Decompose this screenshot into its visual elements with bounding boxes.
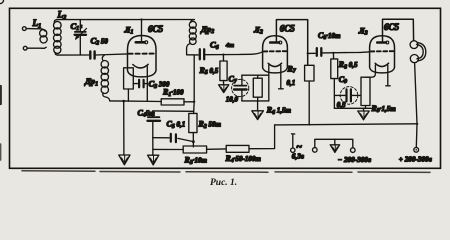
svg-text:R6 1,5т: R6 1,5т [266, 106, 292, 116]
ground 2 [148, 155, 159, 165]
ground lead 1 [123, 101, 125, 155]
V3 anode [377, 41, 386, 44]
svg-text:R9·1,5т: R9·1,5т [371, 104, 397, 114]
V2 cathode lead to bias loop [268, 65, 270, 101]
junction dot R1/bus [193, 101, 195, 103]
junction top rail / anode [140, 18, 142, 20]
C7 plates [234, 75, 247, 101]
svg-text:− 200-300в: − 200-300в [338, 156, 372, 164]
junction dot R2/C5 [192, 140, 195, 143]
svg-text:6С5: 6С5 [148, 24, 164, 34]
junction anode node / C8 [307, 52, 309, 54]
V2 bias loop top wire [242, 74, 269, 76]
V1 anode [136, 41, 145, 44]
capacitor C6 [200, 49, 240, 59]
V3 grid (dashed) [371, 50, 394, 52]
C9 plates [334, 89, 361, 101]
svg-text:~: ~ [296, 142, 302, 153]
svg-text:C5 0,1: C5 0,1 [167, 120, 186, 130]
svg-text:R1·100: R1·100 [162, 88, 184, 98]
V2 cathode arc [268, 63, 281, 66]
headphones: terminal circles and arc [410, 41, 426, 63]
variable capacitor C1 [75, 20, 87, 56]
V2 bias loop bottom wire [242, 100, 269, 102]
resistor R3 10t [183, 146, 206, 153]
cathode resistor R9 [361, 77, 370, 108]
scan edge marks [0, 86, 2, 104]
svg-text:C2 50: C2 50 [91, 35, 109, 46]
svg-text:C45т: C45т [138, 108, 156, 118]
R2 bottom lead [192, 133, 194, 147]
svg-text:Рис. 1.: Рис. 1. [210, 178, 237, 188]
junction phones/rail [416, 123, 418, 125]
capacitor C4 5t [148, 111, 161, 138]
svg-text:6С5: 6С5 [280, 24, 296, 34]
ground 1 [119, 155, 130, 165]
cathode resistor R6 [253, 75, 262, 101]
plate resistor R7 0,1 [305, 65, 314, 81]
tube V2 envelope [263, 36, 288, 73]
C4 top wire to R2 top [153, 110, 194, 112]
ground (negative supply) [330, 145, 339, 153]
V1 grid (dashed) [129, 53, 155, 55]
V3 cathode arc [375, 63, 388, 66]
svg-text:4т: 4т [225, 42, 234, 49]
capacitor C2 50 [90, 51, 128, 58]
wire C6 to V2 grid [240, 52, 263, 55]
svg-text:6С5: 6С5 [384, 22, 400, 32]
cathode node wire (Dr1 bottom to R1) [110, 100, 161, 103]
tank coil L2 [54, 20, 62, 56]
svg-text:R4·50-100т: R4·50-100т [225, 154, 262, 164]
svg-text:10,0: 10,0 [226, 95, 239, 103]
capacitor C8 10t [308, 48, 345, 56]
RF choke Dr1 [101, 55, 110, 101]
resistor R1 100 [161, 99, 184, 105]
capacitor C3 300 [133, 80, 147, 87]
V1 cathode arc [133, 64, 148, 68]
svg-text:R2 50т: R2 50т [198, 120, 222, 130]
ground (R5) [219, 85, 229, 93]
wire C8 to V3 grid [345, 51, 370, 54]
resistor R4 50-100t [226, 145, 249, 152]
junction grid wire / R5 [222, 54, 224, 56]
svg-text:R5 0,5: R5 0,5 [199, 66, 219, 76]
V1 cathode lead down [146, 66, 148, 101]
tube V1 envelope [128, 36, 157, 77]
svg-text:C8·10т: C8·10т [318, 31, 341, 41]
vertical bus x194 (Dr2/C6 node down to R2) [193, 55, 196, 113]
V3 heater stub with tick [386, 65, 390, 86]
RF choke Dr2 [187, 20, 197, 55]
svg-text:0,1: 0,1 [287, 79, 296, 87]
filament terminal ~6,3v [291, 134, 295, 153]
top rail wire [57, 19, 195, 21]
wire R4 to B+ riser [249, 125, 275, 149]
wire R3 to R4 [207, 148, 227, 150]
phones lead down to rail and + terminal [415, 63, 417, 148]
ground stub (V2) [257, 101, 259, 111]
svg-text:+ 200-300в: + 200-300в [399, 155, 433, 163]
V3 cathode lead to R9 [366, 65, 376, 77]
paper background [0, 0, 450, 190]
grid-leak R5 0,5 [220, 55, 227, 85]
svg-text:R8 0,5: R8 0,5 [338, 60, 358, 70]
ground (V3) [358, 111, 369, 120]
electrolytic C7 dashed shell [232, 79, 249, 96]
V3 bias bottom wire [334, 107, 371, 109]
junction dot [122, 100, 125, 103]
tank bottom wire [58, 54, 89, 56]
V2 heater stub with tick [279, 65, 284, 89]
V3 anode lead routed to phones [383, 19, 414, 41]
grid-leak resistor box (V1) [124, 68, 134, 89]
tube V3 envelope [370, 36, 395, 73]
ground lead 2 [152, 138, 154, 155]
capacitor C5 0,1 [153, 134, 194, 142]
V2 anode [270, 41, 279, 44]
terminal +200-300v [414, 147, 419, 152]
svg-text:R3·10т: R3·10т [184, 156, 208, 166]
wire R1 right to vertical bus [184, 101, 194, 103]
border frame [10, 8, 441, 168]
svg-text:0,5: 0,5 [337, 101, 346, 109]
negative supply bracket [313, 139, 356, 152]
B+ rail [275, 124, 418, 125]
R7 bottom lead to B+ rail [308, 81, 310, 125]
V2 grid (dashed) [264, 50, 287, 52]
antenna coil L1 [0, 0, 47, 50]
electrolytic C9 dashed shell [340, 87, 358, 105]
ground stub (V3) [363, 108, 365, 111]
svg-text:6,3в: 6,3в [292, 153, 305, 161]
wire Dr2 bottom to C6 [187, 54, 199, 56]
V2 anode lead routed over label [276, 20, 307, 66]
junction C8 wire / R8 [332, 52, 334, 54]
box bottom lead [127, 89, 129, 101]
page smudge line below frame [22, 171, 430, 173]
ground (V2) [252, 111, 264, 120]
resistor R2 50t [189, 113, 197, 132]
wire ground2 to R3 [153, 148, 183, 150]
grid-leak R8 0,5 [331, 53, 338, 109]
V1 anode lead to top rail [141, 20, 143, 42]
